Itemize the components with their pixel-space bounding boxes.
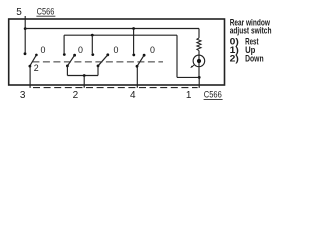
node lamp bottom junction: [198, 76, 201, 79]
svg-text:2: 2: [34, 63, 39, 73]
lamp illumination arrow: [192, 65, 195, 67]
svg-text:2): 2): [230, 54, 239, 64]
node switch2 contact: [63, 53, 66, 56]
svg-text:adjust switch: adjust switch: [230, 26, 272, 36]
wire horizontal lamp-bottom to lineB drop: [177, 76, 199, 78]
switch3 pivot: [97, 65, 100, 68]
wire switch3 pivot down: [97, 66, 99, 76]
switch3 lever tip: [106, 53, 109, 56]
wire switch1 pivot to pin3: [29, 66, 31, 88]
C566 top underline: [36, 15, 55, 17]
switch assembly outline box: [9, 19, 225, 85]
wire lamp feed drop from line3: [198, 29, 200, 38]
wire pin2 drop: [83, 76, 85, 88]
wire line B right drop: [176, 35, 178, 77]
node switch4 contact: [132, 54, 135, 57]
wire switch2 pivot down: [66, 66, 68, 76]
lamp L1 bulb circle: [193, 55, 205, 67]
svg-text:0: 0: [41, 45, 46, 55]
svg-text:1: 1: [186, 90, 192, 101]
svg-text:C566: C566: [204, 90, 222, 101]
connector boundary dashed line (bottom): [33, 87, 198, 89]
wire through lamp: [198, 55, 200, 67]
wire line B left drop to switch2 contact: [63, 35, 65, 53]
switch1 lever tip: [35, 54, 38, 57]
wire resistor to lamp: [198, 51, 200, 55]
wire pin1 drop: [198, 77, 200, 88]
node pin5 junction: [24, 27, 27, 30]
wire lamp bottom: [198, 67, 200, 77]
svg-text:5: 5: [16, 7, 22, 18]
component description text block: [230, 17, 272, 63]
wire drop to switch3 contact: [91, 35, 93, 53]
svg-text:3: 3: [20, 90, 26, 101]
switch2 lever tip: [73, 54, 76, 57]
node switch1 feed contact: [24, 52, 27, 55]
switch3 lever: [98, 55, 108, 66]
wire feed line 3 horizontal: [25, 28, 199, 30]
svg-text:0: 0: [78, 45, 83, 55]
node junction on line3 for switch4 contact: [132, 27, 135, 30]
svg-text:2: 2: [73, 90, 79, 101]
switch1 pivot: [29, 65, 32, 68]
wire bridge line B horizontal: [64, 34, 177, 36]
svg-text:C566: C566: [37, 6, 55, 17]
svg-text:Down: Down: [245, 54, 264, 64]
wire pivot bus switch2-switch3: [67, 75, 98, 77]
C566 bottom underline: [204, 98, 223, 100]
switch2 lever: [68, 55, 75, 66]
svg-text:0: 0: [114, 45, 119, 55]
wire switch4 pivot to pin4: [136, 66, 138, 88]
resistor R (zigzag): [197, 38, 201, 51]
switch2 pivot: [66, 65, 69, 68]
switch4 lever tip: [143, 54, 146, 57]
svg-text:0: 0: [150, 45, 155, 55]
mechanical coupling dashed line: [32, 61, 163, 63]
wire pin5 down to switch1 contact: [24, 29, 26, 53]
svg-text:4: 4: [130, 90, 136, 101]
switch4 lever: [137, 55, 144, 66]
wire drop to switch4 contact: [133, 29, 135, 54]
lamp filament dot: [197, 59, 201, 63]
wire pin5 stub into box: [24, 16, 26, 29]
switch1 lever: [30, 55, 37, 66]
node pin2 junction on bus: [83, 74, 86, 77]
node junction on line B: [91, 34, 94, 37]
switch4 pivot: [136, 65, 139, 68]
node switch3 contact: [91, 53, 94, 56]
